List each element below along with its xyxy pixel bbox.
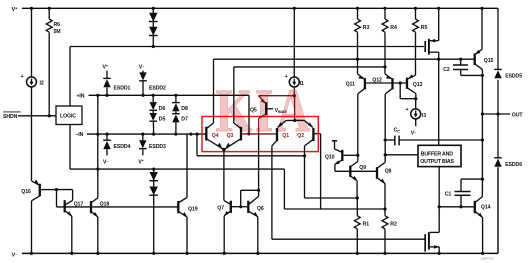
node V+ top left label	[12, 5, 19, 13]
svg-text:Q14: Q14	[481, 205, 491, 211]
resistor R6 5M	[46, 8, 60, 116]
svg-text:Q15: Q15	[484, 58, 494, 64]
svg-text:ESDD4: ESDD4	[114, 144, 131, 150]
svg-text:R4: R4	[390, 25, 397, 31]
svg-text:D7: D7	[181, 117, 188, 123]
transistor Q17	[65, 200, 84, 253]
svg-text:Q19: Q19	[188, 207, 198, 213]
svg-text:D5: D5	[159, 117, 166, 123]
transistor Q9	[350, 155, 366, 198]
svg-text:ESDD6: ESDD6	[505, 162, 522, 168]
svg-text:Q7: Q7	[217, 205, 224, 211]
svg-text:C2: C2	[443, 67, 450, 73]
wire I1 to input pair (maroon)	[293, 87, 297, 122]
transistor Q15	[475, 8, 494, 69]
capacitor C1	[445, 179, 483, 208]
diode D8	[172, 95, 188, 112]
diode ESDD3	[138, 134, 166, 165]
svg-text:Q16: Q16	[21, 189, 31, 195]
transistor Q4	[206, 123, 224, 150]
svg-text:ESDD5: ESDD5	[505, 74, 522, 80]
svg-text:LOGIC: LOGIC	[60, 114, 76, 120]
transistor Q18	[91, 198, 109, 254]
transistor Q2	[297, 120, 313, 145]
svg-text:R2: R2	[390, 222, 397, 228]
wire LOGIC top riser to PMOS gate	[70, 47, 424, 107]
diode ESDD4	[103, 134, 131, 165]
transistor Q1	[272, 120, 304, 145]
svg-text:R6: R6	[54, 22, 61, 28]
svg-text:ESDD1: ESDD1	[114, 85, 131, 91]
svg-text:Q18: Q18	[100, 202, 110, 208]
wire Q1 collector to NMOS gate	[272, 146, 425, 239]
wire Q16/Q17 base-collector junction	[55, 188, 73, 207]
wire Q5 collector down to Q6 mirror	[257, 119, 260, 197]
svg-text:ESDD2: ESDD2	[149, 85, 166, 91]
node +IN input wire	[77, 94, 250, 100]
svg-text:Q4: Q4	[212, 133, 219, 139]
diode ESDD6	[494, 158, 522, 168]
svg-text:CC: CC	[394, 128, 401, 134]
svg-text:16367 F03: 16367 F03	[481, 256, 494, 260]
diode D6	[149, 95, 165, 112]
svg-text:I2: I2	[40, 81, 44, 87]
node SHDN input	[3, 112, 56, 120]
BUFFER AND OUTPUT BIAS block	[418, 145, 461, 166]
wire Q11-Q12-Q13 base bus	[366, 81, 406, 84]
capacitor CC	[385, 128, 482, 146]
transistor Q13	[407, 74, 423, 99]
svg-text:–IN: –IN	[76, 132, 84, 138]
svg-text:VBIAS: VBIAS	[275, 108, 288, 114]
transistor Q14	[475, 197, 491, 254]
diode stack top (V+ rail to logic line)	[149, 7, 158, 48]
diode ESDD5	[494, 69, 522, 79]
svg-text:OUTPUT BIAS: OUTPUT BIAS	[420, 159, 454, 165]
svg-text:I3: I3	[422, 113, 426, 119]
svg-text:Q5: Q5	[250, 108, 257, 114]
transistor Q11	[346, 58, 365, 156]
node Q3/Q4 emitter junction and tail	[222, 148, 225, 200]
svg-text:Q2: Q2	[297, 133, 304, 139]
wire Q4 collector riser to mirror bus	[214, 59, 475, 123]
svg-text:5M: 5M	[54, 29, 61, 35]
wire Q3 collector riser to mirror bus	[234, 67, 385, 123]
svg-text:Q3: Q3	[227, 133, 234, 139]
resistor R2	[382, 207, 397, 253]
svg-text:R5: R5	[421, 25, 428, 31]
current source I2	[21, 8, 44, 181]
svg-text:C1: C1	[445, 191, 452, 197]
transistor Q3	[224, 123, 241, 150]
node Q11 collector / Q10 base / Q9 collector junction	[356, 154, 359, 157]
svg-text:+IN: +IN	[77, 94, 85, 100]
wire Q10 emitter to Q9/Q8 base bus	[335, 170, 377, 172]
diode stack lower (to V- rail)	[149, 168, 158, 255]
node -IN input wire	[76, 132, 207, 138]
wire mirror base bus Q17-Q18-Q19	[57, 206, 179, 208]
svg-text:ESDD3: ESDD3	[149, 144, 166, 150]
wire Q13 base to collector (diode connection)	[400, 83, 417, 100]
transistor M1 PMOS shutdown switch	[425, 8, 439, 145]
transistor Q16	[21, 179, 56, 253]
diode ESDD1	[103, 64, 131, 95]
wire +IN to -IN ESD column (Q18 collector riser)	[97, 95, 99, 198]
svg-text:OUT: OUT	[512, 113, 524, 119]
LOGIC block	[56, 106, 82, 125]
V+ rail	[22, 7, 498, 9]
diode D7	[172, 111, 188, 134]
mirror bus junction dots	[438, 58, 440, 60]
svg-text:Q11: Q11	[346, 81, 355, 87]
svg-text:Q8: Q8	[385, 169, 392, 175]
svg-text:R1: R1	[363, 222, 370, 228]
wire -IN branch to Q2 collector line	[197, 134, 305, 156]
wire Q12/Q8 node to buffer	[385, 154, 418, 156]
svg-text:SHDN: SHDN	[3, 114, 18, 120]
wire output trunk (Q15 collector to Q14 collector)	[481, 69, 484, 196]
wire buffer output to Q14 base	[438, 167, 474, 233]
svg-text:D6: D6	[159, 106, 166, 112]
resistor R5	[413, 8, 428, 75]
svg-text:Q13: Q13	[413, 82, 423, 88]
transistor Q10	[325, 141, 358, 172]
right edge ESD column wire	[497, 8, 499, 253]
transistor Q12	[372, 65, 392, 162]
svg-text:Q10: Q10	[325, 154, 335, 160]
svg-text:D8: D8	[181, 106, 188, 112]
transistor M2 NMOS output	[425, 232, 439, 253]
wire base bus Q3/Q1 (maroon)	[242, 132, 276, 135]
resistor R3	[355, 8, 370, 59]
node OUT	[482, 112, 523, 118]
wire Q2 collector to R1	[303, 146, 359, 200]
resistor R4	[382, 8, 397, 67]
figure number text	[481, 256, 494, 260]
svg-text:Q1: Q1	[282, 133, 289, 139]
svg-text:BUFFER AND: BUFFER AND	[421, 151, 453, 157]
svg-text:I1: I1	[300, 81, 304, 87]
resistor R1	[354, 198, 369, 253]
current source I1	[285, 8, 304, 87]
transistor Q7	[217, 200, 231, 253]
svg-text:Q6: Q6	[257, 206, 264, 212]
transistor Q6	[248, 196, 264, 253]
transistor Q19	[178, 134, 197, 253]
svg-text:Q9: Q9	[359, 165, 366, 171]
diode D5	[149, 111, 165, 134]
current source I3	[405, 99, 426, 137]
node V- bottom left label	[12, 251, 19, 259]
wire LOGIC bottom to Q2 base route	[70, 125, 385, 210]
input stage highlight box	[202, 117, 318, 152]
wire +IN drop to base bus	[248, 95, 250, 133]
svg-text:R3: R3	[363, 25, 370, 31]
transistor Q8	[377, 162, 392, 209]
wire Q6/Q7 base bus and diode connection	[232, 190, 259, 208]
transistor Q5 (maroon)	[250, 96, 294, 119]
diode ESDD2	[139, 64, 166, 95]
bottom rail junction dots	[30, 252, 484, 255]
V- rail	[22, 252, 498, 254]
top rail junction dots	[30, 7, 484, 10]
node PMOS drain on mirror bus	[437, 58, 440, 61]
capacitor C2	[443, 58, 482, 76]
